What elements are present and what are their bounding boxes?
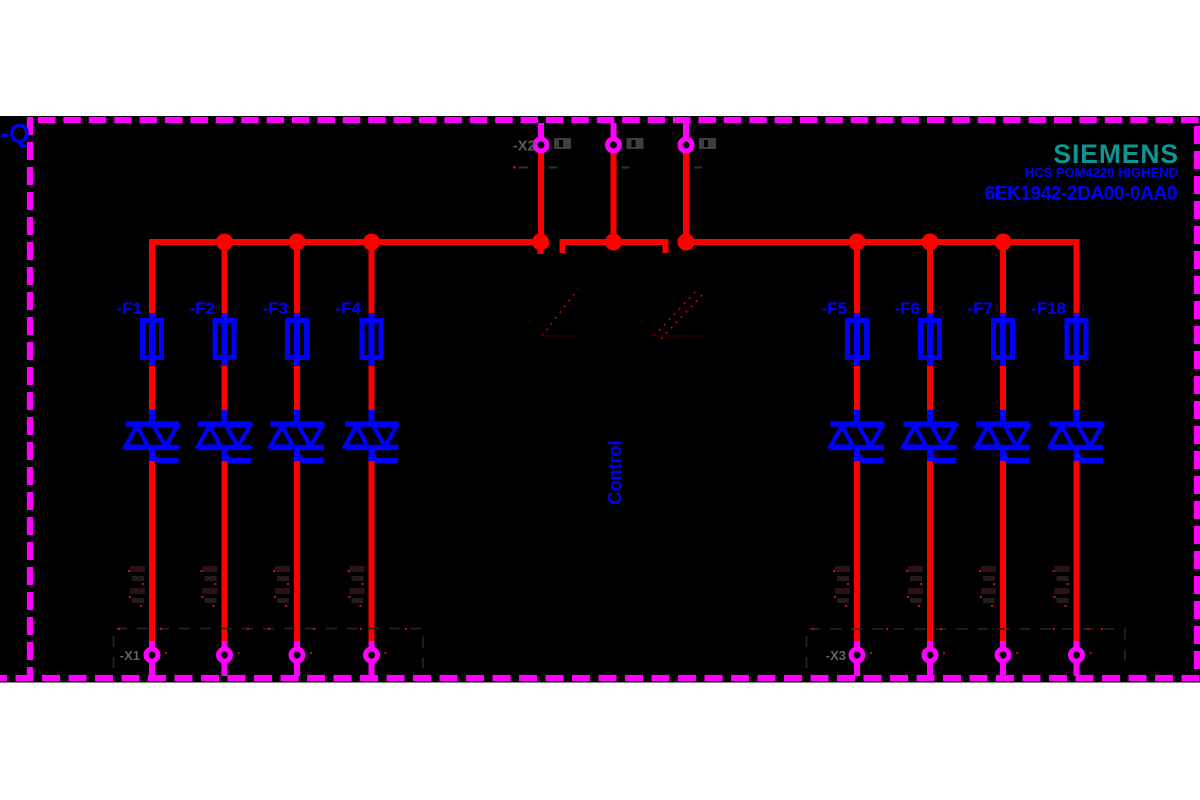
svg-text:-X1: -X1 [120, 648, 140, 663]
ghost speck [238, 652, 240, 654]
ghost mark under X2 label [513, 166, 528, 169]
wire stub below node at x=540 [538, 242, 544, 254]
ghost speck [1090, 652, 1092, 654]
wire branch F4 top [369, 245, 375, 319]
wire from terminal X2:1 down to bus [538, 151, 544, 240]
svg-text:HCS POM4220 HIGHEND: HCS POM4220 HIGHEND [1025, 165, 1178, 180]
ghost terminal mark top 1 [542, 138, 571, 169]
bottom terminal X1:2 [219, 641, 231, 676]
ghost terminal text 3 [273, 566, 290, 607]
bottom terminal X3:1 [851, 641, 863, 676]
wire branch F5 top [854, 245, 860, 319]
svg-text:6EK1942-2DA00-0AA0: 6EK1942-2DA00-0AA0 [985, 184, 1177, 205]
terminal X2:1 [535, 123, 547, 151]
bottom terminal X1:3 [291, 641, 303, 676]
terminal X2:5 [680, 123, 692, 151]
triac V3 [270, 410, 323, 461]
bottom terminal X1:1 [146, 641, 158, 676]
bottom terminal X1:4 [366, 641, 378, 676]
fuse F1 [143, 313, 162, 366]
wire branch F3 top [294, 245, 300, 319]
svg-text:-F1: -F1 [117, 299, 143, 318]
ghost terminal text 1 [128, 566, 145, 607]
fuse F3 [288, 313, 307, 366]
wires fuse to triac (8x) [152, 360, 1077, 413]
terminal strip ghost outline right [807, 629, 1126, 668]
ghost speck [310, 652, 312, 654]
black drawing canvas [0, 116, 1200, 683]
fuse F6 [921, 313, 940, 366]
ghost terminal text 7 [979, 566, 996, 607]
wires triac to bottom terminals (8x) [152, 455, 1077, 642]
bottom terminal X3:4 [1071, 641, 1083, 676]
junction nodes on bus [216, 234, 1012, 251]
ghost speck [385, 652, 387, 654]
bottom terminal X3:3 [997, 641, 1009, 676]
wire right bus with corner at F18 branch [678, 242, 1077, 319]
ghost terminal mark top 3 [687, 138, 716, 169]
triac V6 [903, 410, 956, 461]
triac V4 [345, 410, 398, 461]
frame border left [27, 117, 33, 675]
fuse F18 [1067, 313, 1086, 366]
svg-text:-X2: -X2 [513, 138, 536, 155]
ghost speck [943, 652, 945, 654]
ghost terminal text 5 [833, 566, 850, 607]
ghost terminal text 2 [201, 566, 218, 607]
triac V7 [976, 410, 1029, 461]
svg-text:Control: Control [605, 441, 625, 505]
triac V5 [830, 410, 883, 461]
frame border top [38, 117, 1200, 123]
fuse F2 [215, 313, 234, 366]
wire branch F2 top [222, 245, 228, 319]
wire left bus with corner at F1 branch [152, 242, 549, 319]
svg-text:-F7: -F7 [968, 299, 994, 318]
svg-text:-Q: -Q [0, 119, 30, 149]
fuse F5 [848, 313, 867, 366]
svg-text:-F4: -F4 [336, 299, 362, 318]
svg-text:-F18: -F18 [1031, 299, 1066, 318]
terminal strip ghost outline left [114, 629, 424, 669]
ghost speck [870, 652, 872, 654]
ghost speck [1016, 652, 1018, 654]
triac V2 [198, 410, 251, 461]
wire branch F7 top [1000, 245, 1006, 319]
svg-text:-F6: -F6 [895, 299, 921, 318]
ghost terminal text 6 [906, 566, 923, 607]
wire from terminal X2:5 down to bus [683, 151, 689, 240]
ghost terminal mark top 2 [615, 138, 644, 169]
svg-text:-F2: -F2 [190, 299, 216, 318]
ghost speck [165, 652, 167, 654]
disconnect switch ghost lines (center, faint) [542, 289, 704, 339]
svg-text:-F3: -F3 [263, 299, 289, 318]
wire from terminal X2:3 down to bracket [611, 151, 617, 240]
terminal X2:3 [608, 123, 620, 151]
bottom terminal X3:2 [924, 641, 936, 676]
triac V1 [125, 410, 178, 461]
ghost terminal text 8 [1053, 566, 1070, 607]
wire branch F6 top [927, 245, 933, 319]
ghost line specks [118, 628, 1103, 630]
svg-text:-X3: -X3 [826, 648, 846, 663]
triac V8 [1050, 410, 1103, 461]
wire center bracket segment [563, 242, 666, 253]
fuse F7 [994, 313, 1013, 366]
frame border right [1194, 126, 1200, 675]
frame border bottom [0, 675, 1200, 681]
svg-text:-F5: -F5 [822, 299, 848, 318]
fuse F4 [362, 313, 381, 366]
ghost terminal text 4 [348, 566, 365, 607]
